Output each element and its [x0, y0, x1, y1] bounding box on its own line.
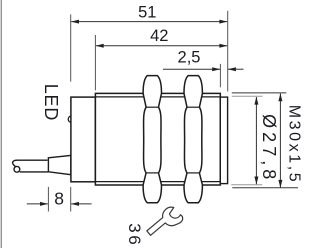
thread root line top	[95, 96, 220, 98]
dimension right extension line (51/42/2,5)	[227, 11, 229, 92]
cable gland	[48, 155, 71, 174]
svg-text:42: 42	[150, 27, 168, 45]
rear housing	[71, 97, 96, 182]
hex nut 1	[143, 76, 161, 203]
svg-text:2,5: 2,5	[178, 48, 201, 66]
dimension line 42	[96, 45, 227, 47]
dimension 8 extension line left	[47, 187, 49, 212]
wrench icon	[147, 207, 183, 235]
svg-text:M30x1,5: M30x1,5	[285, 105, 302, 185]
cable top line with break hook	[13, 160, 48, 166]
dimension line 51	[71, 21, 227, 23]
cap extension line bottom (gray)	[231, 184, 262, 186]
cable break circle	[14, 166, 20, 172]
svg-text:8: 8	[54, 189, 64, 209]
dimension line 2,5 right part	[228, 68, 244, 70]
svg-text:51: 51	[138, 4, 156, 22]
cap extension line top (gray)	[232, 95, 263, 97]
dimension 2,5 extension line left	[219, 64, 221, 87]
thread root line bottom	[95, 181, 220, 183]
cable bottom line	[20, 171, 49, 173]
hex nut 2	[184, 76, 202, 203]
svg-text:36: 36	[125, 223, 144, 247]
dimension 8 extension line right	[70, 187, 72, 212]
svg-text:LED: LED	[41, 84, 61, 121]
M30 extension line top (dark)	[232, 92, 286, 94]
dimension line 2,5 left part	[163, 68, 220, 70]
dimension line M30x1,5	[279, 94, 281, 188]
dimension line 8 right part	[71, 203, 91, 205]
dimension 42 extension line left	[94, 35, 96, 90]
sensing face cap	[220, 97, 227, 184]
left page border line	[0, 0, 2, 248]
dimension line Ø27,8	[255, 97, 257, 184]
M30 extension line bottom (dark)	[232, 187, 298, 189]
barrel (threaded body)	[95, 93, 220, 185]
LED indicator bump	[68, 116, 74, 122]
svg-text:Ø27,8: Ø27,8	[259, 114, 279, 183]
dimension line 8 left part	[27, 203, 48, 205]
dimension 51 extension line left	[70, 14, 72, 81]
